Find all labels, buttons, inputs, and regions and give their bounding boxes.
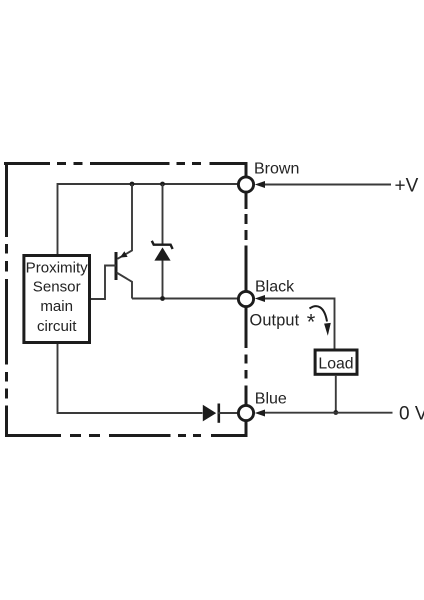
terminal: Brown [238, 177, 253, 192]
wire: internal top rail [58, 184, 239, 254]
wire: collector lead [117, 273, 133, 299]
arrow into Blue terminal [255, 410, 265, 417]
svg-text:Brown: Brown [254, 161, 299, 178]
svg-text:Output: Output [250, 311, 300, 329]
sensor enclosure dashed outline: bottom edge [5, 434, 248, 437]
svg-text:Proximity: Proximity [26, 259, 89, 276]
node: emitter junction dot [130, 182, 135, 187]
wire: zener bottom lead [162, 261, 164, 299]
load box [315, 350, 357, 374]
svg-text:0 V: 0 V [399, 404, 424, 425]
node: zener junction dot [160, 182, 165, 187]
diode D2 triangle [203, 405, 216, 422]
wire: 0V line [263, 412, 393, 414]
svg-text:Black: Black [255, 278, 295, 295]
zener diode D1 anode triangle [154, 247, 170, 260]
sensor enclosure dashed outline: top edge [4, 162, 248, 165]
wire: Black output to load [263, 299, 335, 349]
svg-text:*: * [307, 310, 316, 335]
transistor emitter arrow (PNP) [120, 251, 128, 257]
svg-text:Blue: Blue [255, 390, 287, 407]
wire: +V supply line [263, 184, 391, 186]
wire: base lead to main circuit box [91, 266, 116, 300]
arrow into Brown terminal [255, 181, 265, 188]
arrow into Black terminal [255, 295, 265, 302]
curved arrow from Output label to load wire [310, 306, 328, 321]
wire: 0V internal lead from box to diode [58, 344, 203, 413]
svg-text:+V: +V [395, 176, 419, 197]
zener diode D1 cathode bar [152, 241, 173, 249]
node: zener-output junction dot [160, 296, 165, 301]
sensor enclosure dashed outline: right edge through terminals [245, 162, 248, 437]
sensor enclosure dashed outline: left edge [5, 162, 8, 437]
wire: output rail to Black terminal [132, 298, 238, 300]
terminal: Blue [238, 405, 253, 420]
wire: emitter lead [118, 184, 133, 259]
label: Proximity Sensor main circuit [26, 259, 89, 335]
wire: zener top lead [162, 184, 164, 245]
svg-text:Sensor: Sensor [33, 279, 81, 296]
transistor base bar [115, 252, 118, 280]
svg-text:circuit: circuit [37, 318, 77, 335]
wire: diode to Blue terminal [218, 412, 238, 414]
svg-text:main: main [40, 298, 73, 315]
diode D2 cathode bar [218, 404, 221, 423]
svg-text:Load: Load [318, 355, 353, 372]
node: load junction dot on 0V line [333, 410, 338, 415]
wire: load to 0V line [335, 376, 337, 413]
terminal: Black [238, 291, 253, 306]
proximity sensor main circuit box [24, 256, 90, 343]
